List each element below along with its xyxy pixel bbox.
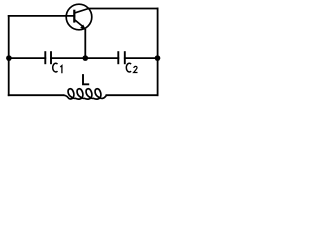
- label L: [83, 74, 89, 84]
- node dot right: [155, 55, 161, 61]
- transistor Q1: [66, 4, 92, 30]
- wire middle-center: [51, 57, 118, 59]
- capacitor C2 plates: [118, 51, 125, 64]
- label C2: [126, 63, 137, 72]
- wire base top-left: [9, 15, 75, 17]
- inductor L coil: [64, 89, 107, 99]
- node dot left: [6, 55, 12, 61]
- capacitor C1 plates: [45, 51, 51, 64]
- wire middle-left: [9, 57, 46, 59]
- wire bottom-left: [9, 94, 64, 96]
- wire bottom-right: [106, 94, 157, 96]
- wire middle-right: [125, 57, 158, 59]
- node junction dot emitter/middle: [83, 55, 89, 61]
- wire right vertical: [157, 9, 159, 96]
- wire collector top-right: [89, 8, 158, 10]
- wire left vertical: [8, 16, 10, 95]
- wire emitter vertical: [84, 30, 86, 58]
- label C1: [53, 63, 62, 73]
